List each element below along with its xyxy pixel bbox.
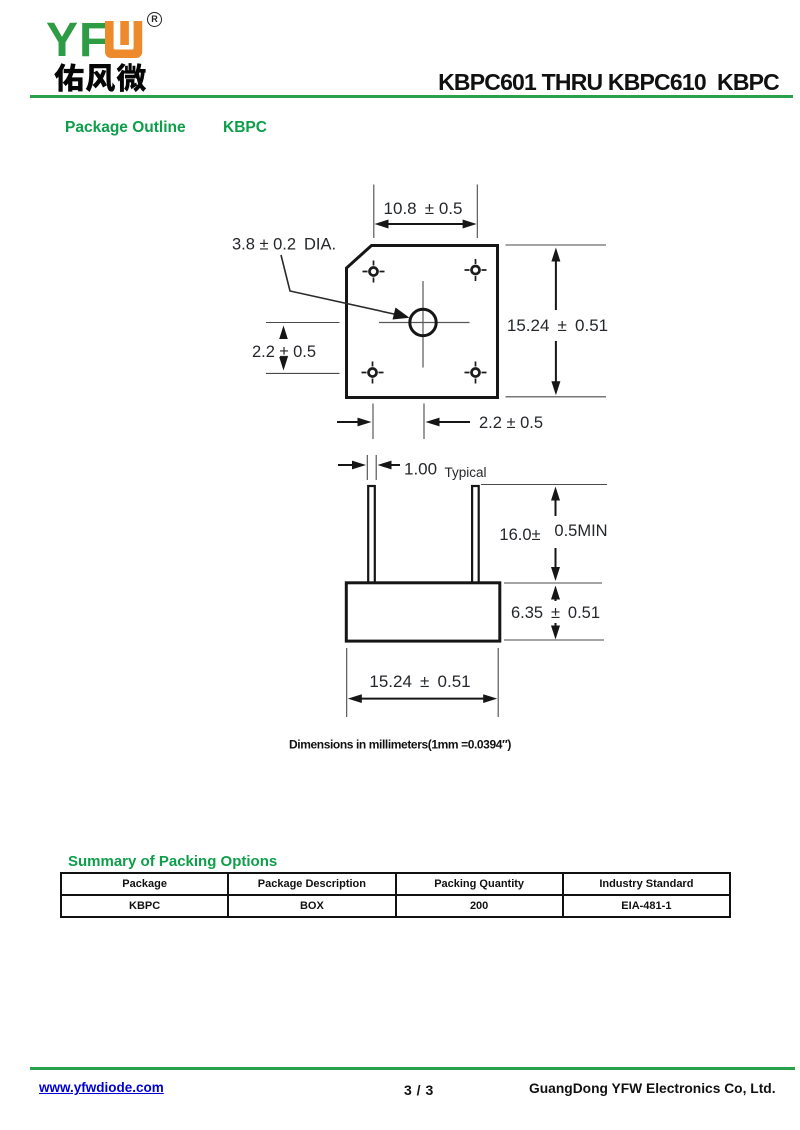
dimension 15.24 bottom extension lines (347, 648, 499, 717)
central hole crosshair (379, 281, 470, 368)
header cell Industry Standard (563, 873, 730, 895)
svg-text:15.24 ± 0.51: 15.24 ± 0.51 (369, 672, 470, 691)
svg-text:10.8 ± 0.5: 10.8 ± 0.5 (384, 199, 463, 218)
data cell EIA-481-1 (563, 895, 730, 917)
mounting hole top-right (465, 259, 487, 281)
dimension 6.35 extension line top (504, 582, 602, 584)
svg-text:Dimensions in millimeters(1mm: Dimensions in millimeters(1mm =0.0394″) (289, 738, 511, 752)
header cell Package Description (228, 873, 395, 895)
svg-text:2.2 ± 0.5: 2.2 ± 0.5 (479, 414, 543, 432)
svg-text:15.24 ± 0.51: 15.24 ± 0.51 (507, 316, 608, 335)
footer website link (39, 1080, 164, 1095)
dimension 10.8 extension lines (374, 185, 478, 239)
dimension 2.2 bottom extension lines (373, 404, 424, 440)
svg-text:6.35 ± 0.51: 6.35 ± 0.51 (511, 604, 600, 622)
footer green rule (30, 1067, 795, 1070)
central hole (410, 309, 436, 335)
svg-text:16.0±: 16.0± (499, 526, 540, 544)
dimension 15.24 bottom arrow (360, 698, 485, 700)
leader line to central hole (281, 255, 403, 316)
dimension 6.35 extension line bottom (504, 639, 604, 641)
header cell Package (61, 873, 228, 895)
header green rule (30, 95, 793, 98)
footer page number (404, 1082, 434, 1098)
mounting hole bottom-right (465, 362, 487, 384)
registered trademark symbol (147, 12, 162, 27)
section label KBPC (223, 119, 267, 137)
mounting hole top-left (363, 261, 385, 283)
dimension 10.8 arrow (387, 223, 464, 225)
header cell Packing Quantity (396, 873, 563, 895)
dimension 15.24 right arrow (555, 259, 557, 384)
svg-text:1.00: 1.00 (404, 460, 437, 479)
mounting hole bottom-left (362, 362, 384, 384)
lead pin right (front view) (472, 486, 479, 583)
dimension 1.00 arrows (338, 464, 353, 466)
svg-text:2.2 ± 0.5: 2.2 ± 0.5 (252, 343, 316, 361)
data cell BOX (228, 895, 395, 917)
dimension 6.35 arrows (551, 586, 560, 600)
data cell 200 (396, 895, 563, 917)
dimension 16.0 arrows (551, 487, 560, 501)
logo Chinese characters 佑风微 (54, 60, 149, 94)
dimension 15.24 right extension lines (506, 245, 607, 397)
data cell KBPC (61, 895, 228, 917)
footer company name (529, 1081, 776, 1096)
packing options table (60, 872, 731, 918)
section label Package Outline (65, 119, 186, 137)
package body (front view) (346, 583, 500, 641)
dimension 2.2 left arrows (279, 326, 288, 340)
logo YF letters (46, 13, 109, 68)
logo W glyph (orange) (103, 21, 147, 61)
table title Summary of Packing Options (68, 853, 277, 870)
dimension 16.0 extension line top (481, 484, 607, 486)
dimension 2.2 left extension lines (266, 323, 340, 374)
svg-text:Typical: Typical (445, 465, 487, 480)
package body (top view) with chamfer (347, 246, 498, 398)
dimension 1.00 extension lines (367, 455, 376, 480)
dimension 2.2 bottom arrows (337, 421, 359, 423)
document title (438, 69, 779, 96)
lead pin left (front view) (368, 486, 375, 583)
svg-text:3.8 ± 0.2 DIA.: 3.8 ± 0.2 DIA. (232, 236, 336, 254)
svg-text:0.5MIN: 0.5MIN (554, 522, 607, 540)
